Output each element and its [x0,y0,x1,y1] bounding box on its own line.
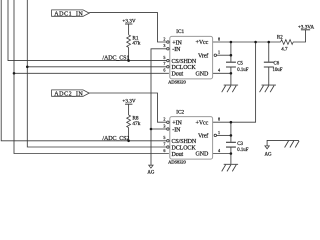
svg-text:AG: AG [147,171,155,176]
wire +Vcc rail IC1 pin8 to R2 [213,41,281,43]
wire IC1 pin4 GND to C5 bottom node [213,72,231,74]
junction node R8//ADC_CS2 [127,140,130,143]
IC IC1 ADS8320 ADC body [170,36,213,79]
svg-text:AG: AG [264,153,272,158]
svg-text:C6: C6 [274,62,280,67]
ground AG arrow under -IN rail [149,165,153,168]
junction node GND2-C3 [230,152,233,155]
wire Vcc drop to IC2 pin8 [213,42,256,122]
resistor R2 4.7 [281,40,294,45]
svg-text:0.1uF: 0.1uF [237,148,248,153]
svg-text:+Vcc: +Vcc [196,120,209,126]
svg-text:2: 2 [163,36,165,41]
svg-text:C3: C3 [237,142,243,147]
wire IC2 pin1 Vref to C3 node [217,134,231,136]
junction node DCLOCK-IC1 [26,66,29,69]
wire R1 top to +3.3V [128,24,130,35]
IC2 pin numbers [163,117,220,153]
IC1 pin circles [167,41,217,68]
wire DCLOCK to IC1 pin7 [27,66,166,68]
svg-text:+Vcc: +Vcc [196,40,209,46]
svg-text:-IN: -IN [172,127,181,133]
ground earth below C3 [222,164,238,171]
svg-text:IC1: IC1 [176,29,184,35]
svg-text:3: 3 [163,123,165,128]
wire R8 top to +3.3V [128,104,130,115]
resistor R1 47k [127,35,131,48]
net flag ADC2_IN [52,90,90,96]
svg-text:-IN: -IN [172,47,181,53]
wire IC1 pin3 -IN to AG rail [151,49,167,165]
svg-text:+3.3VA: +3.3VA [298,24,314,30]
power +3.3V (R1) [125,23,132,25]
wire R1 bottom to /ADC_CS1 [128,47,130,60]
capacitor C5 0.1uF [226,62,236,67]
svg-text:ADC1_IN: ADC1_IN [54,11,83,17]
power +3.3V (R8) [125,103,132,105]
svg-text:2: 2 [163,117,165,122]
wire C5 branch vertical [230,42,232,85]
ground earth below C5 [222,85,238,92]
IC IC2 ADS8320 ADC body [170,117,213,160]
svg-text:4: 4 [218,148,220,153]
wire C3 branch vertical [230,122,232,164]
wire C6 branch vertical [268,42,270,85]
IC1 pin numbers [163,36,220,72]
svg-text:7: 7 [163,61,165,66]
junction node Vref2-C3 [230,134,233,137]
svg-text:DCLOCK: DCLOCK [172,145,197,151]
wire bus DCLOCK vertical from top edge [27,0,166,147]
svg-text:47k: 47k [132,121,140,127]
wire ADC2_IN to IC2 pin2 [89,93,167,122]
svg-text:Vref: Vref [198,133,208,140]
wire R8 bottom to /ADC_CS2 [128,128,130,141]
svg-text:6: 6 [163,148,165,153]
svg-text:+IN: +IN [172,121,182,127]
svg-text:+IN: +IN [172,40,182,46]
junction node Vcc2-C3 [230,121,233,124]
svg-text:GND: GND [195,152,208,158]
wire ADC1_IN to IC1 pin2 [89,13,167,42]
svg-text:0.1uF: 0.1uF [237,68,248,73]
svg-text:7: 7 [163,141,165,146]
svg-text:5: 5 [163,135,165,140]
svg-text:/ADC_CS2: /ADC_CS2 [102,136,129,142]
svg-text:IC2: IC2 [176,109,184,115]
svg-text:ADC2_IN: ADC2_IN [54,91,83,97]
junction node Vcc-C5 [230,41,233,44]
svg-text:+3.3V: +3.3V [122,18,135,24]
net flag ADC1_IN [52,10,90,16]
junction node R1//ADC_CS1 [127,59,130,62]
svg-text:C5: C5 [237,62,243,67]
wire AG rail to IC2 pin3 -IN [151,128,167,130]
svg-text:DCLOCK: DCLOCK [172,65,197,71]
power +3.3VA [301,29,310,31]
IC2 pin circles [167,121,217,148]
svg-text:1: 1 [218,50,220,55]
wire IC1 pin1 Vref to C5 node [217,54,231,56]
junction node Vcc-drop [254,41,257,44]
svg-text:Dout: Dout [172,72,184,78]
svg-text:CS/SHDN: CS/SHDN [172,59,197,65]
svg-text:Dout: Dout [172,152,184,158]
svg-text:6: 6 [163,68,165,73]
resistor R8 47k [127,115,131,128]
junction node Vref1-C5 [230,54,233,57]
svg-text:+3.3V: +3.3V [122,99,135,105]
svg-text:47k: 47k [132,41,140,47]
junction node AG rail -IN2 [150,128,153,131]
ground earth below C6 [260,85,276,92]
capacitor C3 0.1uF [226,142,236,147]
wire AG tie to earth ground [267,140,284,146]
svg-text:R2: R2 [277,36,283,41]
svg-text:10uF: 10uF [273,68,283,73]
svg-text:ADS8320: ADS8320 [168,80,186,85]
ground earth at AG tie [285,140,300,147]
wire R2 to +3.3VA [293,30,306,42]
svg-text:Vref: Vref [198,52,208,59]
svg-text:1: 1 [218,130,220,135]
junction node Dout-IC1 [13,72,16,75]
svg-text:5: 5 [163,55,165,60]
svg-text:ADS8320: ADS8320 [168,160,186,165]
svg-text:3: 3 [163,43,165,48]
svg-text:8: 8 [218,36,220,41]
svg-text:CS/SHDN: CS/SHDN [172,139,197,145]
svg-text:GND: GND [195,71,208,77]
svg-text:4: 4 [218,68,220,73]
svg-text:4.7: 4.7 [281,47,288,52]
wire IC2 pin4 GND to C3 bottom node [213,153,231,155]
junction node GND1-C5 [230,72,233,75]
wire Dout to IC1 pin6 [14,72,169,74]
wire bus /ADC_CS2 vertical from top edge [1,0,167,141]
wire bus Dout vertical from top edge [14,0,169,154]
svg-text:/ADC_CS1: /ADC_CS1 [102,56,129,62]
junction node Vcc-C6 [267,41,270,44]
capacitor C6 10uF [264,62,274,67]
svg-text:8: 8 [218,117,220,122]
ground AG arrow at tie [265,146,269,149]
wire bus /ADC_CS1 vertical from top edge [8,0,167,61]
